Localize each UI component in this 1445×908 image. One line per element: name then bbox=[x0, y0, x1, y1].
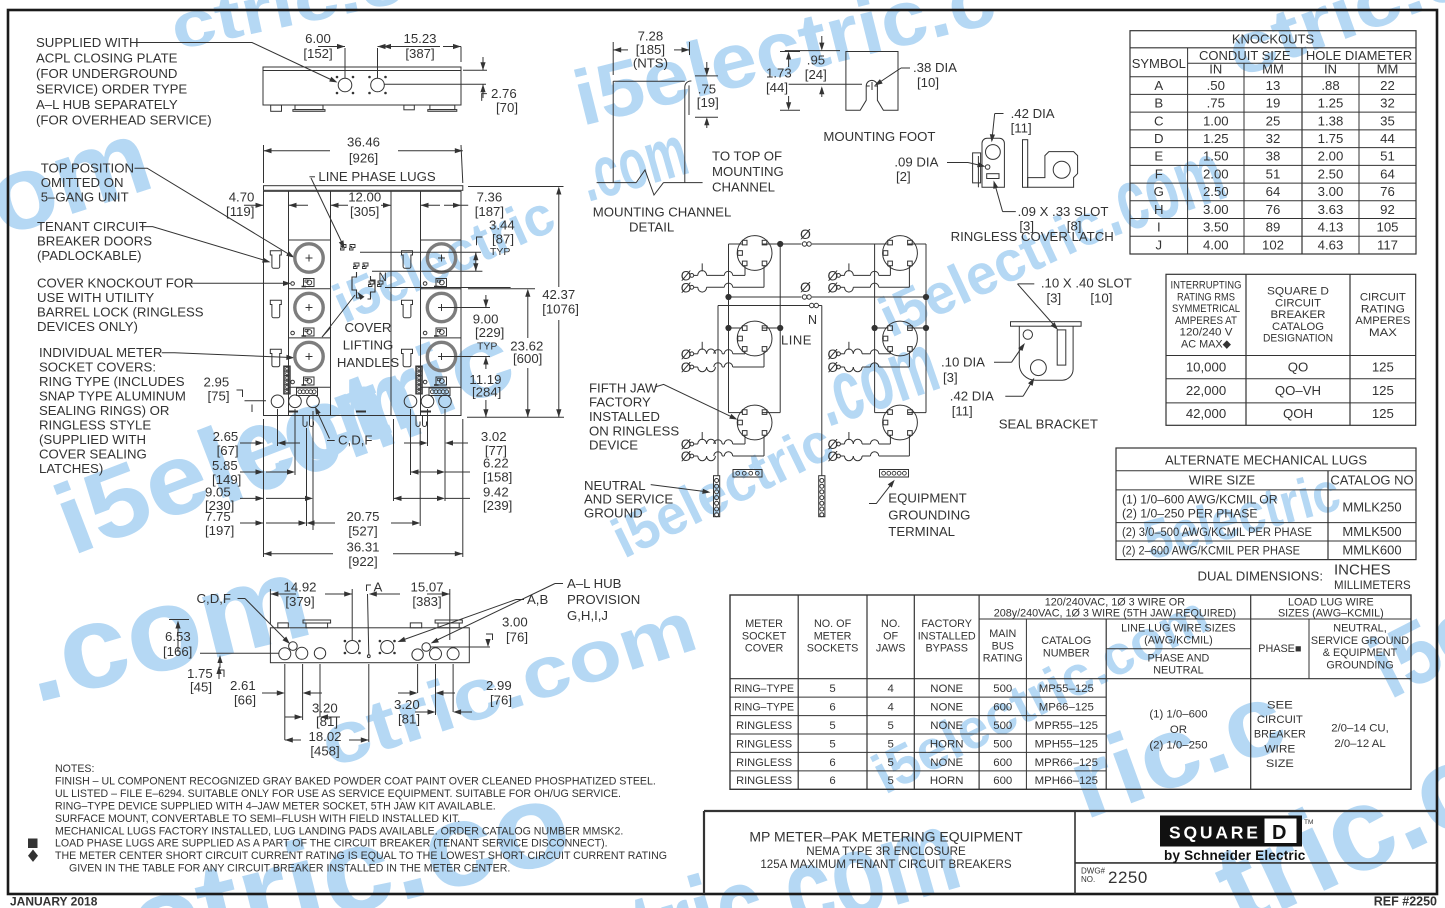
svg-text:MAX: MAX bbox=[1369, 327, 1398, 339]
svg-text:ALTERNATE MECHANICAL LUGS: ALTERNATE MECHANICAL LUGS bbox=[1165, 453, 1367, 468]
svg-text:D: D bbox=[1154, 131, 1164, 146]
svg-text:RING–TYPE: RING–TYPE bbox=[734, 701, 794, 713]
bottom knockouts C,D,F (left) bbox=[279, 642, 326, 660]
seal bracket bbox=[1011, 322, 1082, 381]
svg-text:LINE PHASE LUGS: LINE PHASE LUGS bbox=[318, 169, 435, 184]
svg-text:GROUNDING: GROUNDING bbox=[888, 507, 970, 522]
svg-text:[24]: [24] bbox=[805, 67, 827, 82]
meter socket symbol S3 bbox=[737, 405, 772, 440]
svg-text:1.00: 1.00 bbox=[1203, 113, 1229, 128]
hub knockout B (right) bbox=[369, 76, 387, 94]
svg-text:LINE LUG WIRE SIZES: LINE LUG WIRE SIZES bbox=[1121, 623, 1236, 635]
cover lifting handle left bbox=[352, 272, 361, 298]
svg-text:125: 125 bbox=[1372, 360, 1394, 375]
meter socket M5 bbox=[427, 293, 455, 321]
svg-text:15.07: 15.07 bbox=[410, 580, 443, 595]
cover lifting handle right bbox=[368, 276, 376, 299]
svg-text:2.61: 2.61 bbox=[230, 678, 256, 693]
svg-text:76: 76 bbox=[1380, 184, 1395, 199]
svg-text:LIFTING: LIFTING bbox=[343, 338, 394, 353]
svg-text:LOAD PHASE LUGS ARE SUPPLIED A: LOAD PHASE LUGS ARE SUPPLIED AS A PART O… bbox=[55, 838, 608, 850]
svg-text:1.25: 1.25 bbox=[1318, 96, 1344, 111]
svg-text:NOTES:: NOTES: bbox=[55, 763, 94, 775]
svg-text:TYP: TYP bbox=[490, 246, 510, 258]
svg-text:BARREL LOCK (RINGLESS: BARREL LOCK (RINGLESS bbox=[37, 305, 204, 320]
svg-text:PROVISION: PROVISION bbox=[567, 592, 640, 607]
breaker door D4 bbox=[402, 251, 413, 268]
leader to meter socket cover bbox=[162, 353, 295, 360]
svg-text:(2) 1/0–250 PER PHASE: (2) 1/0–250 PER PHASE bbox=[1122, 507, 1258, 521]
svg-text:COVER SEALING: COVER SEALING bbox=[39, 447, 147, 462]
svg-text:105: 105 bbox=[1376, 220, 1398, 235]
svg-text:TENANT CIRCUIT: TENANT CIRCUIT bbox=[37, 219, 147, 234]
dim 7.36 [187] bbox=[421, 189, 505, 219]
svg-text:12.00: 12.00 bbox=[348, 189, 381, 204]
svg-text:[3]: [3] bbox=[943, 370, 958, 385]
svg-text:NONE: NONE bbox=[930, 683, 963, 695]
svg-text:[45]: [45] bbox=[190, 680, 212, 695]
svg-text:42.37: 42.37 bbox=[542, 287, 575, 302]
svg-text:PHASE AND: PHASE AND bbox=[1148, 653, 1210, 665]
svg-text:DEVICES ONLY): DEVICES ONLY) bbox=[37, 319, 138, 334]
svg-text:(2) 2–600 AWG/KCMIL PER PHASE: (2) 2–600 AWG/KCMIL PER PHASE bbox=[1122, 544, 1300, 558]
meter socket M3 bbox=[295, 342, 323, 370]
svg-text:MM: MM bbox=[1262, 62, 1284, 77]
dim .38 DIA [10] bbox=[875, 60, 958, 90]
dim .10 X .40 SLOT [3] [10] bbox=[1018, 276, 1132, 330]
svg-text:32: 32 bbox=[1380, 96, 1395, 111]
meter socket symbol S6 bbox=[883, 405, 918, 440]
dim 5.85 [149] bbox=[212, 458, 295, 487]
svg-text:CIRCUIT: CIRCUIT bbox=[1360, 292, 1406, 304]
svg-text:C: C bbox=[1154, 113, 1164, 128]
tenant breaker CB3R bbox=[828, 432, 891, 452]
svg-text:6.00: 6.00 bbox=[305, 31, 331, 46]
svg-text:SYMBOL: SYMBOL bbox=[1132, 56, 1186, 71]
svg-text:19: 19 bbox=[1266, 96, 1281, 111]
dim 1.73 [44] bbox=[766, 52, 800, 111]
dim 36.31 [922] bbox=[264, 540, 463, 570]
ground terminal block (left column) bbox=[297, 388, 318, 396]
svg-text:64: 64 bbox=[1380, 166, 1395, 181]
barrel lock knockout bbox=[291, 331, 295, 335]
svg-text:[44]: [44] bbox=[766, 80, 788, 95]
svg-text:NEUTRAL: NEUTRAL bbox=[1153, 665, 1203, 677]
line lug icon bbox=[302, 377, 315, 385]
svg-text:92: 92 bbox=[1380, 202, 1395, 217]
equipment ground strip (left) bbox=[733, 470, 762, 478]
phase bus A (top) bbox=[729, 226, 927, 247]
svg-text:REF #2250: REF #2250 bbox=[1374, 895, 1437, 908]
svg-text:13: 13 bbox=[1266, 78, 1281, 93]
svg-text:A–L HUB SEPARATELY: A–L HUB SEPARATELY bbox=[36, 97, 178, 112]
svg-text:[70]: [70] bbox=[496, 100, 518, 115]
title: mounting channel detail bbox=[593, 205, 731, 235]
dim 23.62 [600] bbox=[468, 289, 543, 418]
svg-text:[458]: [458] bbox=[310, 744, 339, 759]
tenant breaker CB3L bbox=[681, 432, 745, 452]
svg-text:25: 25 bbox=[1266, 113, 1281, 128]
svg-text:51: 51 bbox=[1266, 166, 1281, 181]
svg-text:5: 5 bbox=[887, 720, 893, 732]
svg-text:9.42: 9.42 bbox=[483, 484, 509, 499]
neutral lug pair bbox=[369, 281, 384, 287]
svg-text:[158]: [158] bbox=[483, 470, 512, 485]
svg-text:NEUTRAL,: NEUTRAL, bbox=[1333, 623, 1386, 635]
svg-text:SOCKET COVERS:: SOCKET COVERS: bbox=[39, 360, 156, 375]
svg-text:2/0–14 CU,: 2/0–14 CU, bbox=[1331, 723, 1389, 735]
svg-text:[527]: [527] bbox=[348, 524, 377, 539]
svg-text:RINGLESS COVER LATCH: RINGLESS COVER LATCH bbox=[951, 229, 1114, 244]
svg-text:[10]: [10] bbox=[1090, 291, 1112, 306]
barrel lock knockout bbox=[291, 380, 295, 384]
svg-text:7.36: 7.36 bbox=[477, 189, 503, 204]
svg-text:N: N bbox=[808, 313, 817, 327]
dim 3.44 [87] TYP bbox=[473, 217, 514, 271]
rail right inner bbox=[925, 244, 927, 413]
svg-text:BREAKER DOORS: BREAKER DOORS bbox=[37, 234, 152, 249]
dim 3.02 [77] bbox=[404, 429, 507, 458]
svg-text:MM: MM bbox=[1377, 62, 1399, 77]
meter socket symbol S1 bbox=[737, 236, 772, 271]
svg-text:6: 6 bbox=[829, 757, 835, 769]
svg-text:A–L HUB: A–L HUB bbox=[567, 576, 622, 591]
svg-text:TERMINAL: TERMINAL bbox=[888, 524, 955, 539]
svg-text:(SUPPLIED WITH: (SUPPLIED WITH bbox=[39, 432, 146, 447]
svg-text:[3]: [3] bbox=[1047, 291, 1062, 306]
svg-text:INTERRUPTING: INTERRUPTING bbox=[1171, 280, 1242, 292]
svg-text:JANUARY 2018: JANUARY 2018 bbox=[10, 895, 98, 908]
svg-text:6: 6 bbox=[829, 775, 835, 787]
svg-text:76: 76 bbox=[1266, 202, 1281, 217]
svg-text:[81]: [81] bbox=[398, 712, 420, 727]
svg-text:500: 500 bbox=[993, 738, 1012, 750]
svg-text:RATING RMS: RATING RMS bbox=[1177, 291, 1235, 303]
dim 2.65 [67] bbox=[213, 429, 300, 458]
svg-text:by Schneider Electric: by Schneider Electric bbox=[1164, 848, 1306, 863]
svg-text:SQUARE: SQUARE bbox=[1169, 823, 1261, 843]
svg-text:RINGLESS: RINGLESS bbox=[736, 720, 792, 732]
svg-text:3.44: 3.44 bbox=[489, 217, 515, 232]
svg-text:2.95: 2.95 bbox=[204, 375, 230, 390]
svg-text:HORN: HORN bbox=[930, 738, 964, 750]
svg-text:6.22: 6.22 bbox=[483, 456, 509, 471]
svg-text:BREAKER: BREAKER bbox=[1254, 729, 1306, 741]
dim 36.46 [926] bbox=[264, 135, 463, 184]
bottom knockouts A,B (right) bbox=[412, 643, 459, 661]
svg-text:.10 X .40 SLOT: .10 X .40 SLOT bbox=[1041, 276, 1132, 291]
svg-text:1.50: 1.50 bbox=[1203, 149, 1229, 164]
dim 7.75 [197] bbox=[205, 509, 307, 538]
svg-text:(PADLOCKABLE): (PADLOCKABLE) bbox=[37, 248, 142, 263]
bottom hub knockouts (left) bbox=[271, 395, 319, 408]
neutral terminal block (right column) bbox=[416, 366, 423, 394]
svg-text:5: 5 bbox=[829, 720, 835, 732]
dim 3.20 [81] (right) bbox=[394, 664, 472, 727]
svg-text:BUS: BUS bbox=[992, 640, 1014, 652]
svg-text:MPH66–125: MPH66–125 bbox=[1035, 775, 1098, 787]
svg-text:D: D bbox=[1272, 822, 1286, 844]
svg-text:[379]: [379] bbox=[285, 594, 314, 609]
ringless cover latch right part bbox=[1023, 140, 1078, 188]
svg-text:22: 22 bbox=[1380, 78, 1395, 93]
svg-text:[119]: [119] bbox=[226, 204, 254, 219]
note: individual meter socket covers bbox=[39, 345, 186, 476]
svg-text:SERVICE GROUND: SERVICE GROUND bbox=[1311, 635, 1409, 647]
hub provision A (left) bbox=[344, 640, 360, 654]
svg-text:[387]: [387] bbox=[405, 46, 434, 61]
svg-text:[67]: [67] bbox=[217, 443, 239, 458]
svg-text:NONE: NONE bbox=[930, 757, 963, 769]
svg-text:[11]: [11] bbox=[952, 404, 973, 419]
svg-text:MPR66–125: MPR66–125 bbox=[1035, 757, 1098, 769]
svg-text:DESIGNATION: DESIGNATION bbox=[1263, 333, 1333, 345]
dim 15.23 [387] bbox=[383, 31, 461, 62]
svg-text:MP66–125: MP66–125 bbox=[1039, 701, 1094, 713]
svg-text:FIFTH JAW: FIFTH JAW bbox=[589, 380, 658, 395]
svg-text:[66]: [66] bbox=[234, 693, 256, 708]
svg-text:3.00: 3.00 bbox=[1203, 202, 1229, 217]
svg-text:COVER: COVER bbox=[745, 643, 784, 655]
svg-text:500: 500 bbox=[993, 683, 1012, 695]
svg-text:.95: .95 bbox=[807, 53, 825, 68]
svg-text:5–GANG UNIT: 5–GANG UNIT bbox=[41, 190, 129, 205]
svg-text:SQUARE D: SQUARE D bbox=[1267, 286, 1329, 298]
barrel lock knockout bbox=[423, 282, 427, 286]
svg-text:1.25: 1.25 bbox=[1203, 131, 1229, 146]
svg-text:MMLK500: MMLK500 bbox=[1342, 524, 1401, 539]
svg-text:[383]: [383] bbox=[412, 594, 441, 609]
extension lines below front view bbox=[264, 409, 463, 557]
svg-text:HANDLES: HANDLES bbox=[337, 355, 399, 370]
svg-text:1.38: 1.38 bbox=[1318, 113, 1344, 128]
svg-text:[19]: [19] bbox=[697, 95, 719, 110]
svg-text:4.70: 4.70 bbox=[229, 189, 255, 204]
svg-text:QO–VH: QO–VH bbox=[1275, 383, 1321, 398]
label: neutral and service ground bbox=[584, 478, 711, 520]
svg-text:[305]: [305] bbox=[350, 204, 379, 219]
svg-text:[87]: [87] bbox=[492, 232, 514, 247]
svg-text:3.20: 3.20 bbox=[394, 697, 420, 712]
svg-text:SNAP TYPE ALUMINUM: SNAP TYPE ALUMINUM bbox=[39, 389, 186, 404]
svg-text:INDIVIDUAL METER: INDIVIDUAL METER bbox=[39, 345, 162, 360]
svg-text:[11]: [11] bbox=[1011, 120, 1032, 135]
svg-text:6: 6 bbox=[829, 701, 835, 713]
svg-text:IN: IN bbox=[1209, 62, 1222, 77]
dim 14.92 [379] bbox=[270, 580, 352, 641]
svg-text:BYPASS: BYPASS bbox=[925, 643, 967, 655]
svg-text:OR: OR bbox=[1170, 724, 1187, 736]
dim .42 DIA [11] (seal bracket) bbox=[950, 378, 1035, 419]
svg-text:C,D,F: C,D,F bbox=[338, 433, 372, 448]
svg-text:IN: IN bbox=[1324, 62, 1337, 77]
svg-text:RING–TYPE: RING–TYPE bbox=[734, 683, 794, 695]
dim 2.95 [75] bbox=[204, 375, 267, 412]
svg-text:CIRCUIT: CIRCUIT bbox=[1275, 297, 1321, 309]
svg-text:4: 4 bbox=[887, 701, 893, 713]
svg-text:INSTALLED: INSTALLED bbox=[589, 409, 660, 424]
barrel lock knockout bbox=[291, 282, 295, 286]
svg-text:DUAL DIMENSIONS:: DUAL DIMENSIONS: bbox=[1197, 569, 1323, 584]
svg-text:.38 DIA: .38 DIA bbox=[913, 60, 957, 75]
svg-text:4.00: 4.00 bbox=[1203, 237, 1229, 252]
interrupting rating table bbox=[1166, 274, 1416, 425]
svg-text:4.13: 4.13 bbox=[1318, 220, 1344, 235]
svg-text:MMLK600: MMLK600 bbox=[1342, 543, 1401, 558]
svg-text:2.50: 2.50 bbox=[1203, 184, 1229, 199]
svg-text:208y/240VAC, 1Ø 3 WIRE (5TH JA: 208y/240VAC, 1Ø 3 WIRE (5TH JAW REQUIRED… bbox=[994, 608, 1236, 620]
svg-text:5: 5 bbox=[829, 683, 835, 695]
svg-text:TM: TM bbox=[1304, 819, 1313, 826]
mounting hooks below enclosure bbox=[303, 416, 314, 427]
svg-text:CATALOG NO: CATALOG NO bbox=[1330, 473, 1413, 488]
svg-text:600: 600 bbox=[993, 701, 1012, 713]
svg-text:120/240 V: 120/240 V bbox=[1180, 327, 1234, 339]
breaker door D5 bbox=[402, 300, 413, 318]
svg-text:44: 44 bbox=[1380, 131, 1395, 146]
svg-text:OF: OF bbox=[883, 630, 898, 642]
barrel lock knockout bbox=[423, 380, 427, 384]
svg-text:NEMA TYPE 3R ENCLOSURE: NEMA TYPE 3R ENCLOSURE bbox=[806, 845, 966, 858]
svg-text:G: G bbox=[1154, 184, 1164, 199]
svg-text:RINGLESS: RINGLESS bbox=[736, 738, 792, 750]
line lug icon bbox=[434, 377, 447, 385]
meter socket symbol S5 bbox=[883, 321, 918, 356]
svg-text:QOH: QOH bbox=[1283, 406, 1313, 421]
dim 1.75 [45] bbox=[187, 666, 224, 695]
svg-text:RINGLESS: RINGLESS bbox=[736, 775, 792, 787]
rail left outer bbox=[728, 244, 730, 413]
svg-text:AMPERES AT: AMPERES AT bbox=[1175, 315, 1237, 327]
dim 2.76 [70] bbox=[384, 57, 518, 115]
svg-text:[197]: [197] bbox=[205, 523, 234, 538]
svg-text:GIVEN IN THE TABLE FOR ANY CIR: GIVEN IN THE TABLE FOR ANY CIRCUIT BREAK… bbox=[69, 863, 510, 875]
meter socket symbol S4 bbox=[883, 236, 918, 271]
svg-text:.42 DIA: .42 DIA bbox=[1011, 106, 1055, 121]
footer dates bbox=[10, 895, 1437, 908]
svg-text:AMPERES: AMPERES bbox=[1355, 315, 1410, 327]
dim .95 [24] bbox=[789, 36, 862, 97]
label: line phase lugs bbox=[309, 169, 435, 249]
svg-text:F: F bbox=[1155, 166, 1163, 181]
svg-text:JAWS: JAWS bbox=[876, 643, 906, 655]
svg-text:SOCKET: SOCKET bbox=[742, 630, 787, 642]
svg-text:102: 102 bbox=[1262, 237, 1284, 252]
meter socket symbol S2 bbox=[737, 321, 772, 356]
svg-text:10,000: 10,000 bbox=[1186, 360, 1226, 375]
dim 15.07 [383] bbox=[369, 580, 450, 641]
svg-text:MOUNTING FOOT: MOUNTING FOOT bbox=[823, 129, 935, 144]
svg-text:ON RINGLESS: ON RINGLESS bbox=[589, 423, 679, 438]
hub knockout A (left) bbox=[336, 76, 354, 94]
front view enclosure bbox=[264, 186, 463, 416]
svg-text:CIRCUIT: CIRCUIT bbox=[1257, 714, 1303, 726]
svg-text:[600]: [600] bbox=[513, 351, 542, 366]
ground terminal block (right column) bbox=[429, 388, 450, 396]
svg-text:A,B: A,B bbox=[527, 592, 548, 607]
svg-text:& EQUIPMENT: & EQUIPMENT bbox=[1323, 647, 1398, 659]
svg-text:600: 600 bbox=[993, 757, 1012, 769]
svg-text:SOCKETS: SOCKETS bbox=[807, 643, 859, 655]
svg-text:4: 4 bbox=[887, 683, 893, 695]
svg-text:MOUNTING: MOUNTING bbox=[712, 164, 784, 179]
svg-text:125: 125 bbox=[1372, 383, 1394, 398]
dual dimensions note bbox=[1197, 562, 1411, 592]
svg-text:PHASE■: PHASE■ bbox=[1258, 643, 1301, 655]
svg-text:FACTORY: FACTORY bbox=[921, 618, 972, 630]
svg-text:500: 500 bbox=[993, 720, 1012, 732]
svg-text:38: 38 bbox=[1266, 149, 1281, 164]
svg-text:2.76: 2.76 bbox=[491, 86, 517, 101]
dim 18.02 [458] bbox=[285, 664, 369, 759]
svg-text:[152]: [152] bbox=[303, 46, 332, 61]
svg-text:(2) 1/0–250: (2) 1/0–250 bbox=[1149, 740, 1207, 752]
hub provision A (right) bbox=[379, 640, 395, 654]
svg-text:FACTORY: FACTORY bbox=[589, 395, 651, 410]
svg-text:[229]: [229] bbox=[475, 325, 504, 340]
label A (center) bbox=[367, 580, 383, 655]
svg-text:[284]: [284] bbox=[472, 385, 501, 400]
line lug icon bbox=[302, 279, 315, 287]
svg-text:MPH55–125: MPH55–125 bbox=[1035, 738, 1098, 750]
svg-text:RATING: RATING bbox=[1361, 303, 1405, 315]
leader to hub knockout bbox=[137, 43, 338, 83]
svg-text:MMLK250: MMLK250 bbox=[1342, 500, 1401, 515]
dim 6.00 [152] bbox=[303, 31, 398, 78]
neutral terminal strip (center) bbox=[819, 476, 825, 517]
svg-text:5: 5 bbox=[887, 775, 893, 787]
meter socket M6 bbox=[427, 342, 455, 370]
breaker door D3 bbox=[270, 349, 281, 367]
line lug icon bbox=[302, 328, 315, 336]
tenant breaker CB1R bbox=[828, 263, 891, 283]
svg-text:ACPL CLOSING PLATE: ACPL CLOSING PLATE bbox=[36, 51, 178, 66]
svg-text:51: 51 bbox=[1380, 149, 1395, 164]
dim 2.61 [66] bbox=[230, 664, 322, 740]
svg-text:GROUND: GROUND bbox=[584, 505, 643, 520]
svg-text:NONE: NONE bbox=[930, 701, 963, 713]
svg-text:[926]: [926] bbox=[349, 151, 378, 166]
svg-text:(1) 1/0–600 AWG/KCMIL OR: (1) 1/0–600 AWG/KCMIL OR bbox=[1122, 493, 1278, 507]
label: equipment grounding terminal bbox=[869, 480, 970, 539]
dim 4.70 [119] bbox=[226, 189, 308, 219]
svg-text:5: 5 bbox=[887, 757, 893, 769]
meter socket M4 bbox=[427, 244, 455, 272]
svg-text:[76]: [76] bbox=[506, 630, 528, 645]
svg-text:.10 DIA: .10 DIA bbox=[941, 355, 985, 370]
svg-text:36.46: 36.46 bbox=[347, 135, 380, 150]
dim .10 DIA [3] (seal bracket) bbox=[941, 343, 1025, 385]
breaker door D2 bbox=[270, 300, 281, 318]
svg-text:[76]: [76] bbox=[490, 693, 512, 708]
meter socket M2 bbox=[295, 293, 323, 321]
svg-text:N: N bbox=[379, 272, 387, 284]
svg-text:DEVICE: DEVICE bbox=[589, 438, 638, 453]
svg-text:(1) 1/0–600: (1) 1/0–600 bbox=[1149, 709, 1207, 721]
line enclosure wire bbox=[718, 306, 812, 476]
svg-text:NO.: NO. bbox=[881, 618, 900, 630]
label: fifth jaw bbox=[589, 380, 738, 452]
svg-text:COVER KNOCKOUT FOR: COVER KNOCKOUT FOR bbox=[37, 276, 194, 291]
dim 2.99 [76] bbox=[398, 664, 512, 708]
svg-text:HORN: HORN bbox=[930, 775, 964, 787]
svg-text:MECHANICAL LUGS FACTORY INSTAL: MECHANICAL LUGS FACTORY INSTALLED, LUG L… bbox=[55, 825, 623, 837]
bottom hub knockouts (right) bbox=[404, 395, 451, 408]
note: ACPL closing plate annotation bbox=[36, 35, 212, 128]
phase bus B bbox=[726, 279, 929, 300]
barrel lock knockout bbox=[423, 331, 427, 335]
row3 taps bbox=[729, 412, 927, 414]
